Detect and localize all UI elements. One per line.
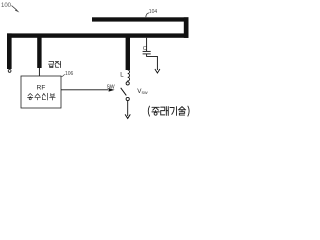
ground arrow (capacitor branch) [155, 69, 160, 73]
inductor L [128, 70, 130, 81]
leader curve for 104 [146, 13, 149, 17]
shorting pin terminal circle [8, 70, 11, 73]
capacitor C plates [143, 51, 151, 54]
wire feed pin to RF box [38, 68, 40, 76]
RF transceiver box 106 [21, 76, 61, 108]
svg-text:100: 100 [1, 3, 12, 9]
control arrowhead [109, 88, 115, 91]
svg-text:106: 106 [65, 71, 74, 77]
antenna top radiator 104 [92, 17, 189, 21]
wire inductor to switch [127, 81, 129, 82]
shorting pin (left) [7, 33, 12, 69]
wire lower bar to capacitor [146, 38, 148, 52]
wire switch to ground [127, 101, 129, 116]
wire capacitor to ground [147, 54, 158, 70]
antenna right vertical connector [184, 17, 189, 38]
wire switch control line from RF box [61, 89, 108, 91]
box text 송수신부 [27, 93, 55, 100]
caption (종래기술) prior art [148, 106, 189, 116]
switch SW arm [121, 88, 127, 96]
switch SW bottom contact [126, 97, 129, 100]
antenna lower radiator [7, 33, 189, 37]
svg-text:RF: RF [37, 84, 46, 91]
label 급전 (feed) [48, 61, 60, 67]
antenna stub to matching network [126, 36, 130, 70]
switch SW top contact [126, 82, 129, 85]
feed pin [37, 36, 41, 68]
leader curve for 106 [62, 74, 65, 77]
leader line for 100 [12, 6, 20, 13]
svg-text:104: 104 [149, 9, 158, 15]
ground arrow (switch branch) [125, 114, 130, 118]
